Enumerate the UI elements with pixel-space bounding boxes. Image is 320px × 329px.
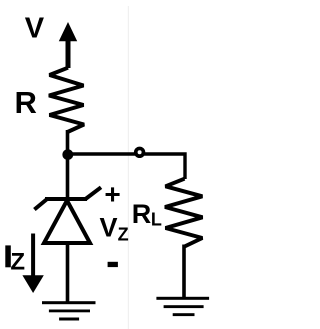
faint divider line bbox=[128, 6, 129, 329]
svg-text:L: L bbox=[151, 209, 162, 229]
left ground bbox=[42, 301, 96, 320]
arrow up (supply) bbox=[59, 22, 77, 68]
arrow IZ (current direction) bbox=[22, 234, 43, 294]
svg-text:V: V bbox=[100, 213, 118, 243]
svg-text:V: V bbox=[25, 12, 45, 44]
svg-text:Z: Z bbox=[10, 249, 25, 276]
wire node to terminal to RL corner bbox=[68, 154, 186, 179]
svg-text:R: R bbox=[132, 199, 152, 229]
wire RL to right ground bbox=[182, 245, 186, 299]
label VZ bbox=[100, 213, 129, 245]
label RL bbox=[132, 199, 162, 229]
right ground bbox=[156, 297, 209, 316]
svg-text:Z: Z bbox=[118, 225, 129, 245]
zener diode D1 bbox=[34, 187, 101, 243]
node junction dot bbox=[62, 149, 73, 160]
wire node to zener cathode bbox=[66, 153, 70, 200]
resistor RL bbox=[165, 179, 203, 247]
label IZ bbox=[5, 245, 25, 275]
wire resistor to node bbox=[66, 130, 70, 156]
svg-text:+: + bbox=[104, 179, 120, 210]
terminal open circle bbox=[136, 148, 144, 156]
resistor R bbox=[49, 68, 84, 132]
svg-text:R: R bbox=[15, 85, 37, 120]
label minus bbox=[108, 262, 118, 267]
wire zener anode to left ground bbox=[66, 241, 70, 303]
